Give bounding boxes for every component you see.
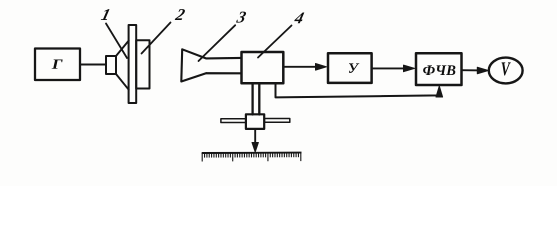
cone of vibrator (element 1) (116, 41, 129, 90)
text У in amplifier (349, 63, 359, 72)
phase-sensitive detector block ФЧВ (416, 53, 462, 85)
horn (element 3) (181, 49, 241, 81)
feedback wire block4 to ФЧВ with arrow (276, 83, 440, 97)
text ФЧВ in detector (423, 65, 455, 75)
ruler scale (202, 152, 302, 154)
text Г in generator (52, 60, 63, 69)
amplifier block У (328, 53, 372, 83)
wire У to ФЧВ with arrow (372, 67, 409, 69)
leader line for label 2 (142, 23, 171, 54)
label 1 (101, 9, 110, 20)
stage left arm (221, 119, 246, 123)
receiver block 4 (242, 52, 284, 83)
pointer arrow down to scale (254, 129, 256, 145)
driver box of vibrator (106, 56, 116, 74)
plate (element 2) (136, 40, 149, 88)
support rod (two lines) (251, 83, 253, 114)
leader line for label 1 (106, 24, 127, 59)
plate tall (element 1) (129, 25, 137, 103)
label 4 (294, 12, 305, 23)
label 2 (175, 9, 186, 20)
label 3 (236, 12, 247, 23)
wire Г to driver (80, 64, 106, 66)
voltmeter circle V (489, 58, 523, 84)
leader line for label 3 (199, 25, 236, 61)
generator block Г (35, 49, 80, 81)
wire ФЧВ to voltmeter with arrow (462, 69, 484, 71)
stage right arm (264, 119, 289, 123)
stage block (246, 114, 264, 129)
leader line for label 4 (258, 26, 292, 58)
wire block4 to У with arrow (283, 66, 321, 68)
text V in voltmeter (502, 62, 511, 75)
